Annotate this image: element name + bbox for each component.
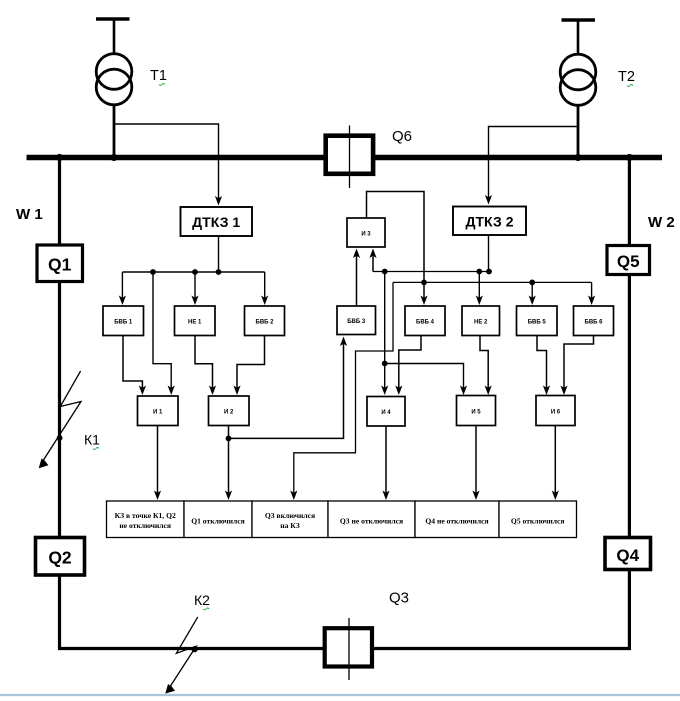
svg-text:К1: К1 [84,432,100,448]
wire: DTKZ1 output to distribution line [218,236,220,272]
gate I5 [457,396,496,426]
wire: BVB4 output to I4 [395,336,421,396]
block NE1 [175,306,216,336]
block BVB6 [574,306,614,336]
fault K1 lightning arrow [39,371,81,468]
wire: NE1 output to I2 [195,336,216,396]
node: DTKZ2 output junction [486,269,492,275]
node on line A at x479.3 [476,269,482,275]
breaker Q6 [326,126,373,189]
gate I6 [536,396,575,426]
label T2 [618,69,635,87]
block BVB1 [103,306,144,336]
wire: I6 output to report box 6 [552,426,559,501]
wire: I5 output to report box 5 [472,426,479,501]
report box 2: Q1 tripped [184,501,252,538]
svg-text:Q5: Q5 [617,252,640,271]
svg-text:не отключился: не отключился [119,521,171,530]
node: K2 on bottom tie line [192,646,198,652]
wire: BVB6 output to I6 [560,336,593,396]
wire: line B [393,281,592,283]
line W2 (middle segment) [628,275,631,538]
svg-text:И 1: И 1 [153,410,163,416]
svg-text:Q1 отключился: Q1 отключился [191,517,245,526]
wire: DTKZ2 output down to line A [488,235,490,272]
node: bus-T2 junction [574,154,581,161]
line W1 (upper segment) [58,159,61,245]
wire: Q2 down to bottom tie line [58,575,61,650]
breaker Q1 [37,245,83,282]
node on distribution line at x195 [192,269,198,275]
svg-text:ДТКЗ 1: ДТКЗ 1 [192,214,240,230]
svg-text:Q5 отключился: Q5 отключился [511,517,565,526]
wire: I4 output to report box 4 [382,426,389,500]
node on line A at x384.7 [382,269,388,275]
block DTKZ2 [453,207,526,236]
block BVB5 [517,306,558,336]
svg-text:Q4 не отключился: Q4 не отключился [425,517,488,526]
block BVB4 [405,306,445,336]
node: line B and I3 output crossing junction [421,280,427,286]
svg-text:T2: T2 [618,69,635,85]
wire: I2 branch up into BVB3 [229,337,348,439]
svg-text:Q3 не отключился: Q3 не отключился [340,517,403,526]
wire: T2 branch to DTKZ2 [485,127,578,205]
svg-text:И 3: И 3 [361,232,371,238]
node: bus-W2 junction [626,154,633,161]
svg-text:И 6: И 6 [551,410,561,416]
svg-text:И 5: И 5 [471,410,481,416]
svg-text:БВБ 6: БВБ 6 [585,320,604,326]
page rule (light blue) [0,694,680,696]
bottom tie line [58,647,631,650]
wire: Q4 down to bottom tie line [628,570,631,651]
svg-text:НЕ 1: НЕ 1 [188,320,202,326]
wire: drop to BVB2 [261,272,268,305]
wire: BVB3 up to I3 left input [353,249,360,307]
svg-text:БВБ 5: БВБ 5 [528,320,547,326]
transformer T2 [560,20,596,157]
wire: drop to NE1 [191,272,198,305]
wire: line B tail down to report box 3 [290,282,393,500]
node: bus-T1 junction [110,154,117,161]
svg-text:T1: T1 [150,68,167,84]
wire: line B drop to BVB5 [529,282,536,305]
wire: I1 output to report box 1 [154,426,161,501]
report box 4: Q3 failed to trip [328,501,415,538]
svg-text:И 4: И 4 [381,410,391,416]
wire: line A tap down to I4 left input [381,272,388,396]
svg-text:БВБ 3: БВБ 3 [347,319,366,325]
fault K2 lightning arrow [165,617,198,694]
node: tap branch junction [382,361,388,367]
wire: tap branch to I5 left input [385,364,467,396]
wire: NE2 output to I5 [480,336,492,396]
gate I4 [367,397,405,427]
node: I2 output branch junction [226,436,232,442]
wire: BVB1 output to I1 [123,336,146,396]
breaker Q4 [605,538,651,570]
breaker Q2 [36,538,85,576]
label T1 [150,68,167,86]
svg-text:на КЗ: на КЗ [280,521,300,530]
node on line B at x532.2 [529,280,535,286]
bus (main busbar) [27,155,663,160]
svg-text:БВБ 2: БВБ 2 [256,320,275,326]
block BVB2 [245,306,285,336]
node on distribution line at x153 [150,269,156,275]
label K2 [194,592,210,610]
label K1 [84,432,100,450]
svg-text:НЕ 2: НЕ 2 [474,320,488,326]
node: DTKZ1 output junction [216,269,222,275]
svg-text:W 2: W 2 [648,214,675,231]
line W2 (upper segment) [628,159,631,246]
svg-text:Q4: Q4 [616,546,639,565]
breaker Q3 [325,618,372,680]
svg-text:Q2: Q2 [48,548,72,568]
wire: I3 output loop down into BVB4 [367,192,428,306]
svg-text:ДТКЗ 2: ДТКЗ 2 [465,213,513,229]
wire: DTKZ1 distribution line [122,271,264,273]
gate I3 [347,218,385,247]
gate I1 [138,396,179,426]
gate I2 [209,396,250,426]
svg-text:И 2: И 2 [224,410,234,416]
wire: I2 output to report box 2 [225,426,232,501]
wire: tap x153 down to I1 right input [153,272,175,395]
block DTKZ1 [181,207,253,236]
node: bus-W1 junction [56,154,63,161]
wire: drop to BVB1 [119,272,126,305]
wire: BVB5 output to I6 [537,336,550,396]
svg-text:Q3: Q3 [389,590,409,607]
svg-text:К2: К2 [194,592,210,608]
line W1 (middle segment) [58,282,61,538]
svg-text:Q3 включился: Q3 включился [265,511,315,520]
svg-text:Q1: Q1 [48,255,72,275]
wire: BVB2 output to I2 [233,336,264,396]
svg-text:W 1: W 1 [16,206,43,223]
wire: T1 branch to DTKZ1 [114,124,222,206]
block BVB3 [337,306,376,335]
node: K1 on line W1 [57,435,63,441]
svg-text:БВБ 4: БВБ 4 [416,320,435,326]
report box 3: Q3 closed onto fault [252,501,328,538]
wire: line A from I3 right input to DTKZ2 [369,249,489,272]
wire: line B end drop to BVB6 [588,282,595,305]
report box 5: Q4 failed to trip [415,501,499,538]
report box 1: KZ at K1, Q2 failed [107,501,185,538]
wire: line A drop to NE2 [476,272,483,306]
block NE2 [462,306,500,336]
svg-text:Q6: Q6 [392,128,412,145]
transformer T1 [96,19,132,157]
svg-text:КЗ в точке К1, Q2: КЗ в точке К1, Q2 [115,511,176,520]
report box 6: Q5 tripped [499,501,577,538]
breaker Q5 [607,246,650,275]
svg-text:БВБ 1: БВБ 1 [114,320,133,326]
